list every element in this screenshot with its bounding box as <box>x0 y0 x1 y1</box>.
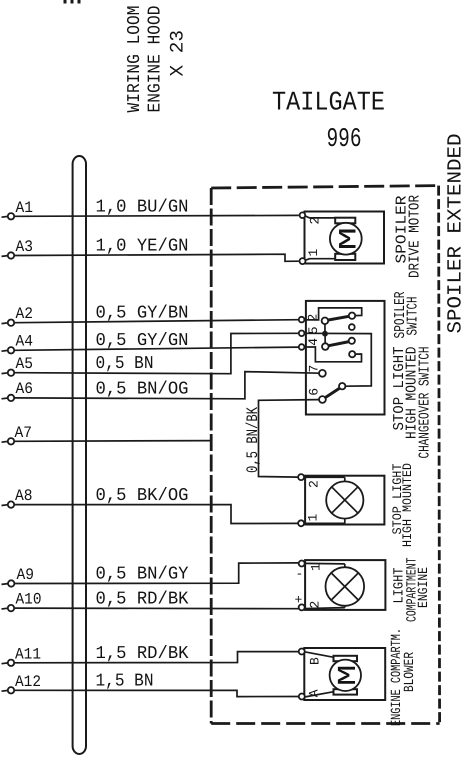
wire 0,5 BN/BK stop light feed <box>259 400 320 478</box>
svg-text:SWITCH: SWITCH <box>405 297 422 336</box>
pin 1 engine compartment light <box>299 561 305 567</box>
spoiler drive motor M box <box>305 212 385 264</box>
engine compartment blower M box <box>304 648 385 700</box>
contact pole 2 upper <box>349 338 355 344</box>
svg-text:B: B <box>307 657 322 665</box>
terminal A4 <box>2 333 34 354</box>
terminal A6 <box>2 380 34 401</box>
moving contact pole 2 <box>322 343 329 350</box>
svg-text:4: 4 <box>306 338 321 346</box>
contact changeover to pin 5 line <box>339 383 345 389</box>
svg-text:0,5 BN/OG: 0,5 BN/OG <box>96 380 189 400</box>
wire A9 to lamp pin 1 <box>14 563 298 584</box>
svg-text:A: A <box>306 689 321 697</box>
label SPOILER DRIVE MOTOR <box>394 195 424 278</box>
svg-text:1: 1 <box>305 514 320 522</box>
svg-text:ENGINE HOOD: ENGINE HOOD <box>145 6 165 113</box>
svg-text:A4: A4 <box>16 333 34 351</box>
svg-text:BLOWER: BLOWER <box>402 652 418 692</box>
page edge marks top <box>65 0 79 4</box>
pin 2 engine compartment light <box>299 604 305 610</box>
lamp symbol engine compartment light <box>326 567 365 606</box>
svg-text:A5: A5 <box>16 355 34 373</box>
wire pin 4 loop to lower contact <box>304 347 362 362</box>
svg-text:A7: A7 <box>15 424 33 442</box>
dashed tailgate boundary right <box>439 186 440 724</box>
moving contact pin 6 <box>319 396 326 403</box>
svg-text:0,5 BN/BK: 0,5 BN/BK <box>244 407 262 473</box>
contact open pole 1 <box>349 324 355 330</box>
terminal A5 <box>2 355 34 376</box>
svg-text:A8: A8 <box>15 487 33 505</box>
wire A5 to pin 5 <box>14 333 299 373</box>
wire node 5 to moving contact 2 <box>324 336 326 343</box>
pin 2 spoiler switch <box>299 317 305 323</box>
svg-text:A12: A12 <box>15 673 41 691</box>
svg-text:1: 1 <box>306 249 321 257</box>
terminal A12 <box>2 673 42 694</box>
svg-text:2: 2 <box>307 601 322 609</box>
stop light high mounted lamp box <box>304 476 384 525</box>
wire A2 <box>14 320 299 323</box>
moving contact pole 1 <box>322 318 329 325</box>
terminal A11 <box>2 646 42 667</box>
wire A8 to stop light pin 1 <box>14 505 298 524</box>
svg-text:0,5 BN: 0,5 BN <box>96 354 154 374</box>
svg-text:M: M <box>335 227 364 251</box>
terminal A3 <box>2 238 34 259</box>
terminal A1 <box>2 199 34 220</box>
pin 1 stop light <box>298 520 304 526</box>
svg-text:996: 996 <box>327 125 362 155</box>
wire A3 <box>14 254 299 261</box>
wire A11 to blower pin B <box>14 652 299 663</box>
pin 5 spoiler switch <box>299 331 305 337</box>
pin B blower <box>299 649 305 655</box>
svg-text:2: 2 <box>306 480 321 488</box>
terminal A9 <box>2 566 35 587</box>
terminal A7 <box>2 424 33 444</box>
svg-text:0,5 GY/BN: 0,5 GY/BN <box>96 304 189 324</box>
terminal A8 <box>2 487 33 508</box>
svg-text:1: 1 <box>308 563 323 571</box>
svg-text:A1: A1 <box>16 199 34 217</box>
svg-text:WIRING LOOM: WIRING LOOM <box>125 6 145 113</box>
label SPOILER SWITCH <box>392 292 422 339</box>
engine compartment light box <box>304 560 385 610</box>
svg-text:0,5 RD/BK: 0,5 RD/BK <box>96 590 189 610</box>
svg-text:M: M <box>333 665 363 687</box>
svg-text:0,5 GY/GN: 0,5 GY/GN <box>96 331 189 351</box>
svg-text:1,5 RD/BK: 1,5 RD/BK <box>96 644 189 664</box>
pin A blower <box>299 694 305 700</box>
changeover lever pin 6 <box>325 388 339 397</box>
switch lever pole 2 <box>328 342 349 346</box>
svg-text:1,5 BN: 1,5 BN <box>96 672 154 692</box>
svg-text:1,0 BU/GN: 1,0 BU/GN <box>96 198 189 218</box>
svg-text:A3: A3 <box>16 238 34 256</box>
dashed tailgate boundary top <box>211 186 438 188</box>
lamp symbol stop light <box>326 481 363 518</box>
junction node pin 5 <box>322 331 328 337</box>
label STOP LIGHT HIGH MOUNTED <box>390 463 415 547</box>
svg-text:A2: A2 <box>16 305 34 323</box>
svg-text:DRIVE MOTOR: DRIVE MOTOR <box>406 195 423 278</box>
svg-text:X 23: X 23 <box>167 30 189 77</box>
pin 4 spoiler switch <box>299 344 305 350</box>
wire pin 5 line to changeover contact <box>304 333 371 386</box>
wire A4 <box>14 347 299 350</box>
label LIGHT COMPARTMENT ENGINE <box>392 558 432 623</box>
svg-text:CHANGEOVER SWITCH: CHANGEOVER SWITCH <box>417 347 434 459</box>
label ENGINE COMPARTM. BLOWER <box>389 628 418 726</box>
wiring loom tube X23 <box>73 156 86 754</box>
contact upper fixed <box>349 313 355 319</box>
svg-text:1,0 YE/GN: 1,0 YE/GN <box>96 237 189 257</box>
svg-text:A6: A6 <box>16 380 34 398</box>
svg-text:0,5 BK/OG: 0,5 BK/OG <box>96 486 189 506</box>
svg-text:ENGINE: ENGINE <box>416 567 432 608</box>
terminal A2 <box>2 305 34 326</box>
label STOP LIGHT HIGH MOUNTED CHANGEOVER SWITCH <box>391 347 434 459</box>
terminal A10 <box>2 591 42 612</box>
switch lever pole 1 <box>328 316 349 320</box>
svg-text:TAILGATE: TAILGATE <box>272 89 385 119</box>
svg-text:A10: A10 <box>16 591 42 609</box>
dashed tailgate boundary left <box>210 188 213 724</box>
dashed tailgate boundary bottom <box>211 722 439 725</box>
pin 1 spoiler drive motor <box>300 258 306 264</box>
contact lower fixed pin 4 <box>349 351 355 357</box>
contact pin 7 <box>319 370 326 377</box>
svg-text:SPOILER EXTENDED: SPOILER EXTENDED <box>445 134 468 334</box>
svg-text:A9: A9 <box>17 566 35 584</box>
wire A1 <box>14 214 299 217</box>
spoiler switch / changeover switch box <box>306 301 385 415</box>
wire A6 to pin 7 <box>14 372 319 399</box>
svg-text:0,5 BN/GY: 0,5 BN/GY <box>96 565 189 585</box>
wire moving contact 1 to node 5 <box>324 324 326 331</box>
svg-text:-: - <box>296 567 304 582</box>
wire A10 to lamp pin 2 <box>14 607 299 610</box>
svg-text:6: 6 <box>306 388 321 396</box>
wire A7 <box>14 440 212 443</box>
wire pin 2 to upper contact loop <box>304 308 362 320</box>
svg-text:HIGH MOUNTED: HIGH MOUNTED <box>400 463 415 547</box>
svg-text:2: 2 <box>307 217 322 225</box>
svg-text:A11: A11 <box>15 646 41 664</box>
pin 2 spoiler drive motor <box>300 212 306 218</box>
pin 2 stop light <box>298 474 304 480</box>
wire A12 to blower pin A <box>14 690 299 696</box>
